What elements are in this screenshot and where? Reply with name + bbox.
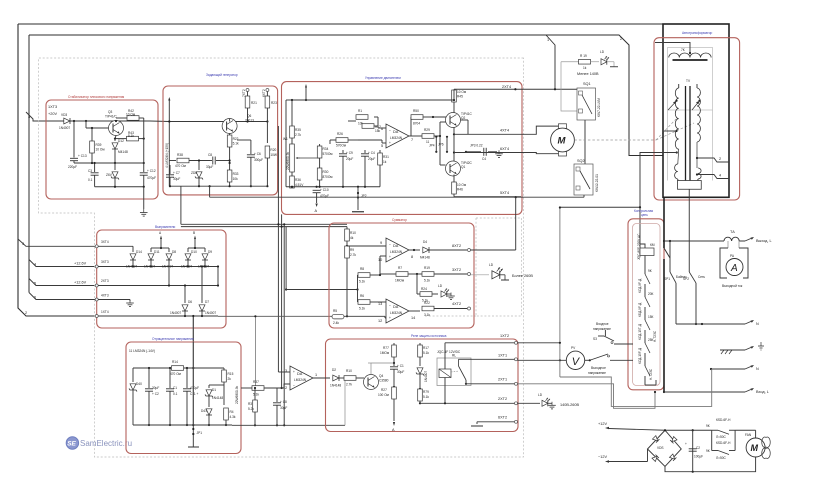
ground boxG [188, 444, 199, 447]
svg-text:JQC-80F 220V AC: JQC-80F 220V AC [637, 233, 641, 260]
diode D8 1N4007 [160, 247, 176, 287]
svg-text:R5: R5 [333, 309, 337, 313]
wire 2XT1 sense loop lower [518, 384, 657, 409]
svg-text:+ C8: + C8 [280, 400, 287, 404]
resistor R8 5.1k [358, 267, 382, 302]
block autotransformer box [654, 31, 740, 200]
svg-text:1N4007: 1N4007 [170, 311, 181, 315]
svg-text:R39: R39 [96, 143, 102, 147]
svg-text:–: – [389, 128, 391, 132]
svg-text:W1: W1 [283, 137, 288, 141]
wire net-1 drop to SQ1 [546, 35, 555, 89]
svg-text:9К: 9К [706, 424, 710, 428]
svg-text:–: – [389, 242, 391, 246]
svg-text:DA: DA [393, 130, 399, 134]
svg-text:1: 1 [547, 38, 549, 42]
svg-text:Q2: Q2 [461, 116, 465, 120]
svg-text:30µF: 30µF [152, 386, 159, 390]
resistor R5 2.4k [332, 309, 386, 325]
svg-text:Вход, L: Вход, L [756, 390, 769, 394]
terminal Vyhod L [745, 237, 772, 243]
svg-text:+ C1: + C1 [397, 364, 404, 368]
node 1XT2 [500, 334, 518, 344]
svg-text:0.1: 0.1 [88, 178, 93, 182]
dashed pcb module outline [39, 58, 524, 457]
svg-text:1k: 1k [583, 66, 587, 70]
resistor R9 2.7k [345, 246, 357, 317]
resistor R31 [378, 150, 389, 187]
resistor R77 1MOm [380, 343, 396, 364]
svg-text:10 Ом: 10 Ом [457, 183, 466, 187]
transformer TV core [686, 79, 691, 181]
svg-text:JP4: JP4 [429, 144, 435, 148]
svg-text:2.7k: 2.7k [346, 383, 352, 387]
svg-text:LD: LD [600, 50, 605, 54]
svg-text:R19: R19 [424, 266, 430, 270]
node 6XT2 ground [471, 416, 518, 427]
svg-text:−12V: −12V [598, 455, 607, 459]
svg-text:M4148: M4148 [118, 150, 128, 154]
svg-text:KW12-22-01: KW12-22-01 [595, 174, 599, 192]
svg-text:3XT2: 3XT2 [452, 268, 461, 272]
label 4 LM324N +15V [165, 143, 169, 168]
svg-text:5.1k: 5.1k [423, 395, 429, 399]
svg-text:14: 14 [411, 316, 415, 320]
switch S3 selector [585, 322, 633, 375]
svg-text:10 Ом: 10 Ом [457, 90, 466, 94]
svg-text:100 Ом: 100 Ом [378, 393, 389, 397]
svg-text:300µF: 300µF [254, 158, 263, 162]
svg-text:D6: D6 [188, 300, 192, 304]
wire net-4 branch +12.6V [29, 260, 97, 267]
svg-text:+ C6: + C6 [254, 152, 261, 156]
svg-text:1N4007: 1N4007 [205, 311, 216, 315]
led LD3 140V-260V [518, 393, 580, 409]
svg-text:SQ1: SQ1 [583, 82, 591, 86]
resistor R79 5.1k [418, 389, 430, 404]
svg-text:+12.6V: +12.6V [74, 262, 87, 266]
transistor Q3 TIP41/C [85, 110, 124, 136]
diode D7 1N4007 [199, 265, 216, 317]
svg-text:R14: R14 [172, 360, 178, 364]
resistor R24 [417, 274, 438, 303]
block motor control box [282, 76, 523, 214]
switch SQ2 KW12-22-01 [574, 159, 599, 195]
svg-text:Задающий генератор: Задающий генератор [206, 73, 238, 77]
svg-text:13: 13 [378, 302, 382, 306]
svg-text:3: 3 [22, 242, 24, 246]
svg-text:3XT4: 3XT4 [101, 240, 109, 244]
led LD2 [438, 284, 455, 300]
svg-text:3: 3 [28, 115, 30, 119]
svg-text:2: 2 [620, 37, 622, 41]
svg-text:1N4148: 1N4148 [330, 384, 341, 388]
svg-text:2XT4: 2XT4 [502, 85, 511, 89]
svg-text:R23: R23 [271, 101, 277, 105]
svg-text:C1: C1 [173, 386, 177, 390]
SamElectric.ru logo [66, 437, 132, 449]
svg-text:R30: R30 [323, 170, 329, 174]
svg-text:R10: R10 [346, 369, 352, 373]
resistor R22b 3.1k [409, 301, 467, 317]
svg-text:570Ом: 570Ом [323, 152, 333, 156]
svg-text:Выходной ток: Выходной ток [722, 284, 743, 288]
svg-text:D9: D9 [208, 250, 212, 254]
svg-text:8704: 8704 [413, 122, 420, 126]
svg-text:КСД-15Т-Д: КСД-15Т-Д [638, 323, 642, 340]
svg-text:6XT4: 6XT4 [500, 147, 509, 151]
wire S3 up feed [559, 206, 561, 377]
svg-text:4k: 4k [350, 236, 354, 240]
svg-text:Q1: Q1 [461, 165, 465, 169]
svg-text:2XT2: 2XT2 [498, 397, 507, 401]
svg-text:Автотрансформатор: Автотрансформатор [682, 31, 712, 35]
fan motor FAN [745, 433, 770, 458]
wire boxA mid rail [74, 162, 145, 164]
svg-text:JQC-3F 12V/DC: JQC-3F 12V/DC [437, 350, 461, 354]
zener D1 M4148 [205, 385, 223, 407]
svg-text:7К: 7К [681, 48, 685, 52]
resistor R7 1MOm [380, 266, 417, 283]
svg-text:R22: R22 [424, 301, 430, 305]
svg-text:5.1k: 5.1k [359, 307, 365, 311]
svg-text:+ C12: + C12 [147, 169, 156, 173]
thermal switch KSD-6F-H top [706, 418, 735, 439]
svg-text:R34: R34 [323, 147, 329, 151]
resistor R42 10 Om [116, 109, 144, 120]
svg-text:+: + [389, 255, 391, 259]
svg-text:+ C10: + C10 [320, 188, 329, 192]
svg-text:2: 2 [25, 311, 27, 315]
ground chassis hatched [720, 342, 764, 354]
svg-text:КСД-9F-Д: КСД-9F-Д [638, 278, 642, 293]
diode D41 [201, 409, 212, 426]
wire boxB top rail [168, 97, 268, 186]
wire phase A arrow up [159, 231, 162, 248]
svg-text:+: + [389, 316, 391, 320]
svg-text:11 LM324N (-14V): 11 LM324N (-14V) [129, 349, 155, 353]
svg-text:6XT2: 6XT2 [498, 416, 507, 420]
svg-text:5.1k: 5.1k [424, 279, 430, 283]
wire net-6 branch [29, 293, 97, 300]
capacitor C7 30uF [166, 165, 180, 186]
svg-text:30µF: 30µF [280, 406, 287, 410]
svg-text:DA: DA [393, 244, 399, 248]
svg-text:М: М [558, 136, 567, 147]
svg-text:ZD6: ZD6 [191, 171, 197, 175]
svg-text:R 19: R 19 [580, 54, 587, 58]
svg-text:+: + [389, 141, 391, 145]
svg-text:R21: R21 [251, 101, 257, 105]
svg-text:DA: DA [393, 305, 399, 309]
svg-text:N: N [756, 322, 759, 326]
svg-text:3.1k: 3.1k [424, 313, 430, 317]
svg-text:A: A [730, 263, 738, 274]
resistor R46 10 Om [452, 175, 466, 197]
svg-text:R35: R35 [295, 128, 301, 132]
svg-text:2.4k: 2.4k [333, 321, 339, 325]
svg-text:SQ2: SQ2 [577, 159, 585, 163]
wire boxC left rail [286, 84, 307, 187]
transistor Q4 C3580 [364, 374, 389, 390]
svg-text:Сеть: Сеть [698, 275, 705, 279]
svg-text:2XT1: 2XT1 [498, 378, 507, 382]
wire boxF rows [98, 246, 218, 316]
wire net-3 branch [18, 239, 97, 246]
svg-text:4.3k: 4.3k [230, 415, 236, 419]
node 3XT2 [452, 268, 471, 276]
svg-text:+20V: +20V [48, 112, 57, 116]
capacitor C11 470uF [183, 367, 199, 426]
wire net-3 input to stabilizer [26, 112, 61, 121]
ground boxF [126, 300, 134, 307]
svg-text:JP6: JP6 [438, 143, 444, 147]
relay RL JQC-3F 12VDC [437, 350, 471, 386]
svg-text:R33: R33 [233, 172, 239, 176]
svg-text:+: + [293, 370, 295, 374]
resistor R45 10 Om [452, 89, 466, 112]
resistor R21 7XT2 [242, 89, 257, 122]
svg-text:1XT3: 1XT3 [48, 105, 57, 109]
thermal switch KSD-6F-H bottom [706, 430, 735, 460]
zener D40 [129, 368, 142, 425]
terminal N lower [710, 365, 759, 371]
jumper JP1 [192, 425, 202, 444]
svg-text:1N4007: 1N4007 [59, 126, 70, 130]
wire KM feed bus [560, 206, 645, 248]
svg-text:8XT2: 8XT2 [452, 244, 461, 248]
block rectifiers box [97, 225, 226, 328]
wire net-5 branch +12.6V [29, 279, 97, 286]
transformer left winding [675, 84, 679, 181]
svg-text:570Ом: 570Ом [336, 144, 346, 148]
svg-text:1XT1: 1XT1 [498, 354, 507, 358]
diode D12 M4148 [112, 139, 128, 163]
capacitor C13 220uF [68, 120, 87, 169]
ammeter PA [720, 241, 748, 288]
svg-text:+ C7: + C7 [173, 171, 180, 175]
svg-text:SE: SE [67, 441, 76, 448]
thermal switch chain KBD-9F-D [638, 292, 654, 320]
svg-text:20µF: 20µF [368, 157, 375, 161]
node 4XT2 [452, 302, 471, 310]
diode D14 1N4007 [126, 246, 142, 268]
jumper JP2 with ground [352, 187, 367, 212]
wire bridge minus [647, 449, 649, 462]
capacitor C8 33uF [206, 153, 231, 169]
wire net-1 to SQ1 feed [554, 88, 556, 90]
wire fan feed [735, 430, 756, 450]
wire sq2 return bus [210, 186, 584, 250]
svg-text:R45: R45 [457, 95, 463, 99]
svg-text:+12.6V: +12.6V [74, 281, 87, 285]
resistor R17 5.1k [418, 343, 430, 366]
wire boxB bottom rail [169, 185, 268, 187]
terminal N upper [676, 320, 759, 326]
resistor R1 10k [348, 109, 368, 126]
svg-text:5.1k: 5.1k [253, 393, 259, 397]
svg-text:R8: R8 [360, 267, 364, 271]
svg-text:Входное: Входное [596, 322, 609, 326]
svg-text:1N4148: 1N4148 [212, 396, 223, 400]
wire arrow A down [392, 422, 395, 432]
node 3XT4 [95, 240, 109, 248]
svg-text:2.7k: 2.7k [350, 253, 356, 257]
wire opamp2 inputs [347, 246, 386, 275]
resistor R35 2.7k [290, 100, 302, 138]
resistor R10b 2.7k [344, 369, 364, 387]
diode D10 1N4007 [181, 248, 197, 269]
svg-text:D2: D2 [332, 368, 336, 372]
svg-text:R27: R27 [381, 388, 387, 392]
svg-text:Менее 140В: Менее 140В [577, 72, 599, 76]
svg-text:470µF: 470µF [147, 176, 156, 180]
diode D2 1N4148 [313, 368, 344, 388]
svg-text:R20: R20 [270, 148, 276, 152]
svg-text:напряжение: напряжение [593, 327, 611, 331]
svg-text:R29: R29 [424, 128, 430, 132]
wire Q2 Q1 emitters join [453, 128, 455, 162]
svg-text:2: 2 [285, 386, 287, 390]
svg-text:–: – [293, 383, 295, 387]
svg-text:220µF: 220µF [68, 165, 77, 169]
resistor R37 5.1k [241, 380, 290, 397]
svg-text:1MОм: 1MОм [380, 351, 389, 355]
svg-text:В: В [193, 231, 195, 235]
svg-text:R6: R6 [360, 294, 364, 298]
resistor R33 10k [227, 162, 238, 186]
thermal switch chain KSD-15T-D [638, 315, 657, 343]
svg-text:+ C4: + C4 [368, 151, 375, 155]
transistor Q2 TIP41C [446, 112, 473, 128]
svg-text:22W6800-9k: 22W6800-9k [286, 152, 290, 170]
potentiometer W1 22W6800-9k [283, 137, 300, 172]
svg-text:10 Ом: 10 Ом [96, 148, 105, 152]
motor M main [551, 124, 575, 156]
svg-text:30µF: 30µF [173, 177, 180, 181]
wire vertical from boxB to bus [181, 186, 347, 224]
svg-text:5.1k: 5.1k [233, 142, 239, 146]
svg-text:140В-260В: 140В-260В [560, 403, 579, 407]
svg-text:D41: D41 [201, 409, 207, 413]
svg-text:КМ: КМ [650, 243, 655, 247]
wire boxC output 2XT4 [454, 85, 577, 90]
svg-text:DA: DA [297, 372, 303, 376]
svg-text:N: N [756, 367, 759, 371]
zener D3 1N4007 [416, 368, 428, 390]
svg-text:FAN: FAN [745, 433, 752, 437]
svg-text:7XT2: 7XT2 [242, 89, 246, 97]
resistor R20 10W [265, 146, 277, 187]
svg-text:КSD-6F-H: КSD-6F-H [716, 441, 731, 445]
svg-text:Более 260В: Более 260В [512, 274, 533, 278]
svg-text:C8: C8 [208, 153, 212, 157]
capacitor C9 20uF [339, 150, 353, 187]
node 3XT3 [95, 260, 109, 268]
label 22W6800-9k rotated [235, 386, 239, 404]
node 8XT2 [452, 244, 516, 252]
svg-text:Л=50С: Л=50С [716, 435, 726, 439]
svg-text:VD3: VD3 [61, 113, 67, 117]
svg-text:1XT2: 1XT2 [500, 334, 509, 338]
svg-text:R46: R46 [457, 188, 463, 192]
svg-text:Стабилизатор плюсового напряже: Стабилизатор плюсового напряжения [68, 95, 124, 99]
svg-text:Q3: Q3 [108, 110, 112, 114]
capacitor C2 30uF [145, 367, 159, 426]
wire phase B arrow up [193, 231, 196, 248]
svg-text:1N4007: 1N4007 [424, 371, 428, 382]
op-amp DA LM324N pins 5 6 7 [381, 124, 413, 148]
svg-text:9К: 9К [706, 449, 710, 453]
svg-text:4: 4 [719, 174, 721, 178]
diode D11 1N4007 [144, 248, 161, 269]
svg-text:470µF: 470µF [190, 386, 199, 390]
svg-text:C11 +: C11 + [190, 392, 198, 396]
switch SP1 baypas [664, 240, 687, 324]
svg-text:100µF: 100µF [694, 455, 703, 459]
zener ZD6 [191, 159, 203, 186]
svg-text:22W6800-9k: 22W6800-9k [235, 386, 239, 404]
svg-text:0.1: 0.1 [173, 392, 178, 396]
svg-text:Н-Т23С: Н-Т23С [649, 368, 653, 380]
svg-text:TIP41/C: TIP41/C [105, 115, 117, 119]
svg-text:D14: D14 [136, 250, 142, 254]
svg-text:12: 12 [378, 319, 382, 323]
svg-text:LM324N: LM324N [390, 136, 403, 140]
capacitor C1b 30uF [390, 363, 404, 388]
svg-text:Выпрямители: Выпрямители [155, 225, 176, 229]
terminal -12V [598, 455, 648, 463]
svg-text:–: – [389, 303, 391, 307]
current transformer TA [664, 230, 745, 241]
svg-text:JP1: JP1 [197, 431, 203, 435]
svg-text:4: 4 [34, 263, 36, 267]
svg-text:20К: 20К [648, 292, 654, 296]
op-amp DA3 LM324N pins 13 12 14 [378, 299, 415, 323]
svg-text:D11: D11 [154, 250, 160, 254]
diode VD3 1N4007 [59, 113, 70, 130]
node 2XT1 [466, 378, 518, 386]
capacitor C3 0.1 [88, 162, 99, 187]
svg-text:R10: R10 [350, 231, 356, 235]
svg-text:+ C2: + C2 [152, 392, 159, 396]
svg-text:15k: 15k [375, 129, 381, 133]
wire bus inner loop left [28, 35, 30, 293]
resistor R22 5.1k [227, 134, 239, 164]
wire tap 2 [696, 157, 729, 162]
svg-text:5.2k: 5.2k [248, 407, 254, 411]
svg-text:8: 8 [411, 255, 413, 259]
resistor R6 5.1k [358, 294, 387, 311]
resistor R27 100 Om [378, 387, 396, 421]
led LD out of range [471, 263, 534, 280]
resistor R30 870Om [317, 158, 332, 188]
svg-text:SP1: SP1 [664, 277, 670, 281]
wire R5 feedback gray [218, 315, 332, 388]
resistor R19 led feed [561, 54, 599, 111]
svg-text:7: 7 [411, 138, 413, 142]
svg-text:10 Ом: 10 Ом [126, 113, 135, 117]
svg-text:Отрицательное напряжение: Отрицательное напряжение [152, 337, 194, 341]
resistor R36 4.51V [290, 172, 305, 188]
svg-text:Z6V: Z6V [106, 173, 113, 177]
wire base bus Q2 Q1 [432, 116, 452, 165]
svg-text:25К: 25К [648, 338, 654, 342]
wire mid vertical c [283, 223, 285, 426]
jumper JP3 cap C4 0.22 [465, 144, 503, 162]
wire mid vertical b [281, 214, 285, 389]
svg-text:М: М [751, 443, 759, 453]
